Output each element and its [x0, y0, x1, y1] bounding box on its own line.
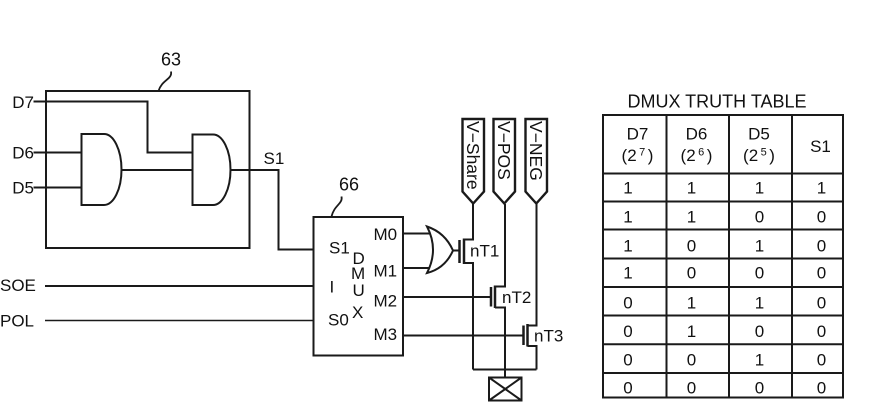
wire D7 — [34, 102, 193, 153]
svg-text:M1: M1 — [374, 262, 398, 281]
svg-text:DMUX TRUTH TABLE: DMUX TRUTH TABLE — [627, 92, 806, 112]
truth table column lines — [667, 115, 793, 398]
svg-text:V−NEG: V−NEG — [526, 121, 546, 181]
wire S1 net — [231, 170, 314, 250]
svg-text:0: 0 — [755, 264, 764, 283]
wire nT1 drain to V-Share — [464, 204, 473, 240]
svg-text:D6: D6 — [12, 144, 34, 163]
wire D6 — [34, 152, 82, 154]
svg-text:66: 66 — [339, 175, 359, 195]
svg-text:1: 1 — [755, 179, 764, 198]
wire SOE — [45, 285, 314, 287]
svg-text:0: 0 — [623, 379, 632, 398]
svg-text:0: 0 — [755, 379, 764, 398]
wire POL — [45, 320, 314, 322]
svg-text:0: 0 — [817, 237, 826, 256]
wire nT3 drain to V-NEG — [528, 204, 537, 326]
AND gate A1 — [82, 134, 122, 205]
svg-text:S1: S1 — [329, 239, 350, 258]
transistor nT1 channel bar — [463, 239, 466, 265]
wire A1 output to A2 input — [122, 169, 193, 171]
svg-text:D7: D7 — [627, 125, 649, 144]
transistor nT3 gate bar — [522, 326, 525, 346]
svg-text:S1: S1 — [810, 137, 831, 156]
svg-text:1: 1 — [687, 208, 696, 227]
leader line for label 66 — [332, 197, 342, 217]
svg-text:(25): (25) — [743, 146, 775, 165]
transistor nT2 gate bar — [490, 287, 493, 307]
wire M0 — [403, 233, 434, 235]
svg-text:0: 0 — [687, 237, 696, 256]
svg-text:I: I — [330, 278, 335, 297]
svg-text:1: 1 — [755, 237, 764, 256]
svg-text:M3: M3 — [374, 325, 398, 344]
svg-text:1: 1 — [817, 179, 826, 198]
svg-text:0: 0 — [817, 208, 826, 227]
svg-text:nT3: nT3 — [534, 327, 563, 346]
svg-text:0: 0 — [687, 379, 696, 398]
svg-text:0: 0 — [817, 294, 826, 313]
wire G1 output to nT1 gate — [453, 250, 459, 252]
svg-text:0: 0 — [817, 322, 826, 341]
or-gate G1 — [427, 227, 453, 274]
svg-text:0: 0 — [817, 264, 826, 283]
svg-text:V−POS: V−POS — [494, 121, 514, 180]
svg-text:S0: S0 — [328, 311, 349, 330]
svg-text:1: 1 — [623, 264, 632, 283]
svg-text:63: 63 — [161, 50, 181, 70]
svg-text:D6: D6 — [686, 125, 708, 144]
transistor nT2 channel bar — [494, 286, 497, 309]
svg-text:D5: D5 — [12, 179, 34, 198]
wire M3 — [403, 335, 523, 337]
svg-text:1: 1 — [623, 179, 632, 198]
svg-text:V−Share: V−Share — [463, 121, 483, 190]
DMUX block U66 — [314, 217, 404, 356]
svg-text:1: 1 — [623, 208, 632, 227]
svg-text:S1: S1 — [264, 149, 285, 168]
truth table row lines — [603, 174, 843, 374]
wire nT2 source down to pad — [495, 308, 505, 378]
svg-text:1: 1 — [755, 294, 764, 313]
svg-text:M0: M0 — [374, 225, 398, 244]
svg-text:0: 0 — [687, 264, 696, 283]
svg-text:1: 1 — [623, 237, 632, 256]
wire nT3 source down — [528, 346, 537, 370]
svg-text:1: 1 — [687, 322, 696, 341]
wire common source join — [473, 369, 537, 371]
transistor nT1 gate bar — [458, 240, 461, 263]
leader line for label 63 — [159, 72, 172, 92]
wire nT1 source down — [464, 263, 473, 370]
svg-text:0: 0 — [755, 322, 764, 341]
svg-text:(26): (26) — [681, 146, 713, 165]
svg-text:0: 0 — [623, 294, 632, 313]
svg-text:1: 1 — [687, 294, 696, 313]
svg-text:0: 0 — [817, 351, 826, 370]
svg-text:nT2: nT2 — [502, 288, 531, 307]
svg-text:0: 0 — [817, 379, 826, 398]
svg-text:(27): (27) — [622, 146, 654, 165]
svg-text:POL: POL — [0, 312, 34, 331]
wire nT2 drain to V-POS — [495, 204, 505, 287]
svg-text:nT1: nT1 — [470, 242, 499, 261]
wire D5 — [34, 187, 82, 189]
svg-text:D5: D5 — [748, 125, 770, 144]
banner V-Share — [463, 119, 485, 204]
AND gate A2 — [193, 135, 231, 206]
banner V-POS — [494, 119, 516, 204]
svg-text:1: 1 — [687, 179, 696, 198]
wire M1 — [403, 267, 434, 269]
svg-text:X: X — [352, 303, 363, 322]
svg-text:0: 0 — [687, 351, 696, 370]
svg-text:U: U — [353, 281, 365, 300]
svg-text:0: 0 — [623, 351, 632, 370]
transistor nT3 channel bar — [526, 324, 529, 347]
terminal pad (crossed box) — [489, 378, 522, 401]
svg-text:0: 0 — [623, 322, 632, 341]
box 63 (decoder block) — [46, 91, 250, 248]
svg-text:1: 1 — [755, 351, 764, 370]
svg-text:SOE: SOE — [0, 276, 36, 295]
wire M2 — [403, 296, 490, 298]
svg-text:D7: D7 — [12, 93, 34, 112]
svg-text:0: 0 — [755, 208, 764, 227]
svg-text:M2: M2 — [374, 292, 398, 311]
truth table outer frame — [603, 115, 843, 398]
banner V-NEG — [526, 119, 548, 204]
